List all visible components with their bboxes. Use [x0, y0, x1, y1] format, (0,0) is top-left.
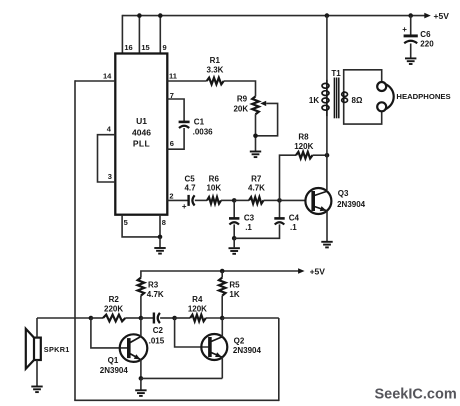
wire node to R7 — [234, 199, 249, 201]
junction dot R9/wiper — [253, 134, 258, 139]
wire C1 to pin 6 — [167, 128, 184, 149]
svg-text:.1: .1 — [290, 223, 297, 232]
junction dot R3/Q1 collector/C2 — [139, 316, 144, 321]
resistor R4 — [190, 315, 206, 322]
transformer T1 core — [334, 78, 338, 119]
label 1K (T1 primary) — [309, 96, 319, 105]
wire R7 to node — [264, 199, 280, 201]
label 4.7K (R3) — [147, 290, 164, 299]
label .1 (C3) — [245, 223, 252, 232]
pin 9 label — [163, 43, 167, 52]
wire R1 to R9 top — [224, 81, 256, 96]
label R9 — [237, 94, 248, 103]
wire U1 pin 15 to +5V rail — [138, 16, 140, 54]
ground Q3 — [321, 242, 332, 248]
wire speaker top lead — [36, 318, 38, 338]
resistor R6 — [207, 197, 221, 204]
label 220K (R2) — [104, 304, 123, 313]
svg-text:R1: R1 — [210, 56, 221, 65]
svg-text:+5V: +5V — [310, 266, 326, 276]
label 8Ω (T1 secondary) — [352, 96, 363, 105]
wire speaker to R2 — [37, 317, 91, 319]
wire C3 top stub — [233, 200, 235, 218]
+5V arrow (mid) — [298, 268, 305, 274]
svg-text:+5V: +5V — [434, 11, 450, 21]
label C1 — [194, 118, 205, 127]
svg-text:1K: 1K — [309, 96, 319, 105]
junction dot pin9/rail — [158, 13, 163, 18]
capacitor C5 — [189, 195, 195, 206]
label C3 — [244, 214, 255, 223]
pin 8 label — [162, 218, 166, 227]
pin 15 label — [141, 43, 149, 52]
wire Q3 emitter to ground — [326, 211, 328, 242]
svg-text:R9: R9 — [237, 94, 248, 103]
wire R2 to node — [125, 317, 141, 319]
pin 16 label — [124, 43, 132, 52]
IC U1 4046 PLL body — [115, 54, 167, 215]
wire feedback bus right vertical — [278, 318, 280, 401]
svg-text:4.7K: 4.7K — [248, 184, 265, 193]
wire R5 to row — [221, 296, 223, 318]
headphones band — [385, 84, 394, 109]
svg-text:SPKR1: SPKR1 — [44, 345, 70, 354]
label +5V (mid) — [310, 266, 326, 276]
resistor R8 — [296, 152, 313, 159]
label 4.7K (R7) — [248, 184, 265, 193]
svg-text:2N3904: 2N3904 — [100, 366, 129, 375]
wire feedback bus bottom — [74, 399, 279, 401]
label 1K (R5) — [229, 290, 239, 299]
label Q3 — [338, 189, 349, 198]
svg-text:6: 6 — [170, 139, 174, 148]
wire rail to T1 primary — [326, 16, 328, 80]
wire C3 bottom — [233, 224, 235, 238]
svg-text:220: 220 — [420, 39, 434, 48]
label R6 — [209, 174, 220, 183]
pin 14 label — [103, 71, 112, 80]
pin 5 label — [124, 218, 128, 227]
capacitor C4 — [274, 218, 284, 224]
transistor Q2 2N3904 — [201, 334, 227, 360]
svg-text:C5: C5 — [184, 174, 195, 183]
wire Q2 base drop — [175, 318, 209, 347]
svg-text:Q3: Q3 — [338, 189, 349, 198]
svg-text:8Ω: 8Ω — [352, 96, 363, 105]
wire C4 top stub — [279, 200, 281, 218]
svg-text:2N3904: 2N3904 — [233, 346, 262, 355]
label +5V (top right) — [434, 11, 450, 21]
pin 3 label — [108, 172, 112, 181]
label C6 — [420, 30, 431, 39]
label SPKR1 — [44, 345, 70, 354]
ground U1 pins 5-8 — [154, 248, 165, 254]
wire R8 left riser — [280, 155, 297, 200]
svg-text:120K: 120K — [188, 304, 207, 313]
wire R4 to node — [206, 317, 222, 319]
junction dot speaker/Q1 base — [89, 316, 94, 321]
capacitor C3 — [229, 218, 239, 224]
junction dot R5/Q2 collector/feedback — [220, 316, 225, 321]
svg-text:8: 8 — [162, 218, 166, 227]
svg-text:+: + — [182, 202, 187, 211]
svg-text:4046: 4046 — [132, 127, 151, 137]
wire R6 to node — [221, 199, 234, 201]
wire +5V top rail — [122, 15, 425, 17]
ground C3/C4 — [229, 248, 240, 254]
label C4 — [289, 214, 300, 223]
C6 polarity + — [402, 25, 407, 34]
svg-text:C4: C4 — [289, 214, 300, 223]
junction dot pins5-8 — [158, 235, 163, 240]
svg-text:C3: C3 — [244, 214, 255, 223]
ground speaker — [31, 387, 42, 393]
capacitor C2 — [154, 313, 160, 324]
label 20K — [233, 105, 248, 114]
svg-text:4.7: 4.7 — [184, 184, 196, 193]
resistor R1 — [207, 78, 224, 85]
capacitor C1 — [179, 122, 190, 128]
junction dot emitters/ground — [139, 376, 144, 381]
label 2N3904 (Q3) — [337, 200, 366, 209]
label .1 (C4) — [290, 223, 297, 232]
wire rail to C6 — [410, 16, 412, 36]
junction dot rail/C6 — [408, 13, 413, 18]
speaker SPKR1 cone — [26, 329, 34, 369]
label 10K — [206, 184, 221, 193]
wire Q1 emitter drop — [140, 360, 142, 379]
svg-text:16: 16 — [124, 43, 132, 52]
wire C3-C4 bottom link — [234, 224, 279, 238]
svg-text:C1: C1 — [194, 118, 205, 127]
svg-text:10K: 10K — [206, 184, 221, 193]
pin 7 label — [170, 91, 174, 100]
label 4046 — [132, 127, 151, 137]
wire speaker bottom lead — [36, 360, 38, 387]
svg-text:120K: 120K — [294, 142, 313, 151]
speaker SPKR1 driver — [34, 338, 41, 360]
label 4.7 (C5) — [184, 184, 196, 193]
wire emitter row — [141, 377, 222, 379]
junction dot R5/rail — [220, 269, 225, 274]
svg-text:11: 11 — [169, 71, 177, 80]
label R7 — [251, 174, 262, 183]
svg-text:R5: R5 — [229, 281, 240, 290]
resistor R2 — [103, 315, 125, 322]
junction dot pin15/rail — [137, 13, 142, 18]
wire C2 to node — [160, 317, 175, 319]
svg-text:2: 2 — [169, 191, 173, 200]
svg-text:220K: 220K — [104, 304, 123, 313]
svg-text:SeekIC.com: SeekIC.com — [375, 387, 457, 403]
wire R8 to collector — [313, 154, 328, 156]
wire node to feedback bus — [222, 317, 279, 319]
svg-text:R3: R3 — [148, 281, 159, 290]
label R5 — [229, 281, 240, 290]
label 2N3904 (Q2) — [233, 346, 262, 355]
pin 11 label — [169, 71, 177, 80]
wire pin 14 stub — [75, 80, 115, 82]
wire R9 wiper loop — [256, 103, 278, 135]
svg-text:R7: R7 — [251, 174, 262, 183]
svg-text:C6: C6 — [420, 30, 431, 39]
wire pin 7 stub — [167, 99, 184, 122]
svg-text:HEADPHONES: HEADPHONES — [396, 92, 450, 101]
ground C6 — [405, 58, 416, 64]
wire R5 top — [221, 271, 223, 278]
svg-text:R2: R2 — [109, 295, 120, 304]
transistor Q1 2N3904 — [120, 334, 148, 362]
wire pins 4-3 strap — [98, 135, 116, 182]
svg-text:3.3K: 3.3K — [207, 65, 224, 74]
label C5 — [184, 174, 195, 183]
wire to R2 — [91, 317, 103, 319]
svg-text:.1: .1 — [245, 223, 252, 232]
wire +5V mid rail — [141, 271, 299, 278]
label U1 — [136, 116, 147, 126]
resistor R3 — [138, 278, 145, 296]
label R3 — [148, 281, 159, 290]
label R2 — [109, 295, 120, 304]
svg-text:9: 9 — [163, 43, 167, 52]
wire node to R4 — [175, 317, 191, 319]
wire pin 11 to R1 — [167, 80, 206, 82]
pin 4 label — [107, 125, 112, 134]
pin 2 label — [169, 191, 173, 200]
wire feedback bus left vertical — [74, 80, 76, 400]
pin 6 label — [170, 139, 174, 148]
svg-text:.015: .015 — [149, 336, 165, 345]
wire U1 pin 9 to +5V rail — [159, 16, 161, 54]
resistor R5 — [219, 278, 226, 296]
wire Q1 collector — [140, 318, 142, 337]
wire C5 to R6 — [195, 199, 207, 201]
label 220 (C6) — [420, 39, 434, 48]
svg-text:3: 3 — [108, 172, 112, 181]
wire secondary top to headphones — [344, 70, 382, 91]
watermark SeekIC.com — [375, 387, 457, 403]
C5 polarity + — [182, 202, 187, 211]
wire pin 5 strap — [122, 215, 160, 237]
wire U1 pin 16 to +5V rail — [121, 15, 123, 54]
capacitor C6 — [404, 36, 418, 43]
junction dot R8/collector — [325, 153, 330, 158]
R9 wiper arrow — [260, 101, 266, 106]
svg-text:Q1: Q1 — [108, 356, 119, 365]
label Q1 — [108, 356, 119, 365]
wire R9 bottom to ground — [255, 114, 257, 151]
svg-text:Q2: Q2 — [234, 336, 245, 345]
svg-text:20K: 20K — [233, 105, 248, 114]
junction dot R6/R7/C3 — [232, 198, 237, 203]
svg-text:4.7K: 4.7K — [147, 290, 164, 299]
wire R3 to row — [140, 296, 142, 318]
transistor Q3 2N3904 — [305, 188, 331, 214]
junction dot C2/Q2 base — [172, 316, 177, 321]
svg-text:R4: R4 — [192, 295, 203, 304]
svg-text:1K: 1K — [229, 290, 239, 299]
junction dot R7/R8/C4/Q3 — [277, 198, 282, 203]
label 120K (R8) — [294, 142, 313, 151]
ground R9 — [250, 152, 261, 158]
label R1 — [210, 56, 221, 65]
svg-text:C2: C2 — [153, 326, 164, 335]
label .0036 — [193, 128, 214, 137]
label HEADPHONES — [396, 92, 450, 101]
wire secondary bottom to headphones — [344, 104, 382, 124]
wire Q2 emitter drop — [221, 357, 223, 378]
svg-text:U1: U1 — [136, 116, 147, 126]
svg-text:5: 5 — [124, 218, 128, 227]
label 120K (R4) — [188, 304, 207, 313]
label .015 (C2) — [149, 336, 165, 345]
wire pin 8 stub — [159, 215, 161, 237]
transformer T1 primary winding — [322, 79, 329, 116]
label C2 — [153, 326, 164, 335]
svg-text:15: 15 — [141, 43, 149, 52]
svg-text:+: + — [402, 25, 407, 34]
junction dot C3/ground — [232, 236, 237, 241]
wire pins5-8 ground stem — [159, 237, 161, 248]
junction dot rail/T1 — [325, 13, 330, 18]
label 2N3904 (Q1) — [100, 366, 129, 375]
headphones top earpiece — [377, 82, 386, 91]
svg-text:R6: R6 — [209, 174, 220, 183]
wire Q2 collector — [221, 318, 223, 337]
wire node to C2 — [141, 317, 154, 319]
label Q2 — [234, 336, 245, 345]
potentiometer R9 — [252, 96, 259, 114]
svg-text:2N3904: 2N3904 — [337, 200, 366, 209]
wire node to Q3 base — [280, 199, 306, 201]
label R4 — [192, 295, 203, 304]
label T1 — [331, 69, 341, 78]
svg-text:T1: T1 — [331, 69, 341, 78]
wire Q1 base drop — [91, 318, 128, 348]
headphones bottom earpiece — [377, 102, 386, 111]
svg-text:14: 14 — [103, 71, 112, 80]
wire pin 2 to C5 — [167, 199, 188, 201]
label PLL — [133, 139, 150, 149]
label R8 — [298, 133, 309, 142]
svg-text:R8: R8 — [298, 133, 309, 142]
wire emitters ground stem — [140, 378, 142, 390]
svg-text:.0036: .0036 — [193, 128, 214, 137]
svg-text:PLL: PLL — [133, 139, 150, 149]
wire C3 ground stem — [233, 238, 235, 248]
wire C6 to ground — [410, 44, 412, 59]
label 3.3K — [207, 65, 224, 74]
resistor R7 — [249, 197, 264, 204]
wire T1 primary to Q3 collector — [326, 117, 328, 190]
ground Q1/Q2 emitters — [135, 390, 146, 396]
transformer T1 secondary winding — [342, 91, 348, 104]
+5V arrow (top right) — [424, 13, 431, 19]
